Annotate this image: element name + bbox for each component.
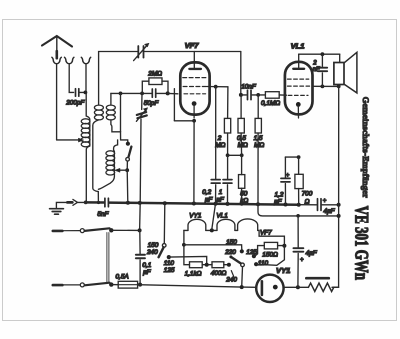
- socket jack 3: [81, 57, 90, 64]
- ground symbol: [50, 209, 64, 215]
- tap arrowhead on antenna coil: [78, 138, 83, 142]
- smoothing column x298: [296, 214, 300, 218]
- resistor 0.5MOhm: [240, 95, 242, 119]
- node: 1.2uF column on bus: [284, 203, 288, 207]
- reaction tap wire: [119, 169, 127, 171]
- svg-text:2: 2: [312, 60, 317, 66]
- wire pivot down to mains: [241, 267, 244, 287]
- selector1 wire from bus: [163, 203, 166, 243]
- capacitor 2nF: [321, 54, 323, 67]
- tube VL1 envelope: [285, 62, 313, 115]
- svg-text:2MΩ: 2MΩ: [147, 71, 162, 78]
- plug connector bar: [67, 201, 72, 204]
- switch S1 contact dot: [126, 142, 130, 146]
- svg-text:VE 301 GWn: VE 301 GWn: [351, 206, 372, 280]
- node: reaction tap: [125, 168, 129, 172]
- selector2 lever: [231, 257, 242, 264]
- VF7 cathode dot: [192, 101, 197, 106]
- capacitor 200pF: [76, 89, 79, 97]
- bus wire to 4uF: [299, 204, 317, 206]
- chassis bus continued (thick): [109, 203, 298, 205]
- wire socket3 down: [85, 65, 87, 93]
- transformer primary winding: [94, 105, 103, 120]
- svg-text:VY1: VY1: [276, 266, 290, 275]
- wire 200pF to node: [80, 91, 86, 93]
- svg-text:5nF: 5nF: [97, 211, 109, 218]
- inductor L1 antenna coil: [81, 119, 90, 147]
- svg-text:MΩ: MΩ: [215, 142, 225, 149]
- node link: [226, 153, 230, 157]
- heater filament VL1: [217, 219, 235, 230]
- node: 0.2uF column on bus: [214, 202, 218, 206]
- wire trimmer down through bus to mains: [140, 119, 141, 230]
- VF7 grid row2 (screen): [183, 86, 207, 88]
- second bus from 1.5M bottom: [258, 204, 339, 216]
- svg-text:VF7: VF7: [185, 41, 200, 50]
- wire socket2 down: [69, 65, 73, 93]
- VF7 grid row1: [183, 77, 207, 79]
- svg-text:VY1: VY1: [189, 213, 202, 220]
- svg-text:150: 150: [226, 239, 237, 246]
- svg-text:0,5A: 0,5A: [116, 274, 129, 281]
- capacitor 0.2uF: [211, 180, 220, 184]
- 150 line: [184, 245, 242, 250]
- tube VF7 envelope: [180, 62, 209, 114]
- svg-text:VL1: VL1: [216, 213, 228, 220]
- wire plug to bus: [78, 201, 86, 203]
- svg-text:0,1MΩ: 0,1MΩ: [261, 100, 280, 107]
- variable capacitor C tuning: [138, 46, 143, 58]
- heater filament VF7: [238, 219, 258, 230]
- rail continued to VF7/right: [145, 51, 241, 53]
- svg-text:10nF: 10nF: [241, 84, 257, 91]
- capacitor 50pF: [152, 89, 155, 97]
- svg-text:MΩ: MΩ: [238, 142, 248, 149]
- resistor 2MOhm grid leak: [149, 78, 162, 85]
- node under VF7: [192, 119, 196, 123]
- VL1 grid row2 (screen): [288, 85, 310, 87]
- mains plug pin upper: [53, 230, 63, 233]
- VY1 cathode bar: [261, 281, 264, 295]
- resistor 0.1MOhm: [258, 94, 265, 96]
- mains switch upper circle: [80, 229, 84, 233]
- svg-text:µF: µF: [216, 197, 225, 204]
- top anode rail: [99, 52, 138, 105]
- svg-text:+: +: [286, 173, 290, 179]
- wire staircase to switch contact: [121, 140, 128, 142]
- node: socket3 / coil top: [84, 91, 88, 95]
- node: trimmer/mains line on bus: [138, 201, 142, 205]
- svg-text:110: 110: [258, 260, 269, 267]
- contact dot 125: [252, 254, 256, 258]
- node: 50k column on bus: [240, 202, 243, 205]
- switch S1 lever: [128, 147, 131, 158]
- svg-text:1,2: 1,2: [275, 191, 284, 198]
- loudspeaker: [334, 63, 344, 85]
- wire secondary bottom jog: [111, 120, 121, 132]
- VL1 cathode dot: [296, 102, 301, 107]
- chassis bus (thick): [86, 201, 104, 204]
- inductor reaction coil: [106, 151, 115, 175]
- wire antenna coil bottom to bus: [86, 146, 90, 202]
- svg-text:240: 240: [225, 277, 237, 284]
- node: 1.5M column on bus: [256, 202, 260, 206]
- svg-text:1: 1: [219, 189, 223, 196]
- svg-text:Gemeinschafts-Empfänger: Gemeinschafts-Empfänger: [361, 97, 371, 198]
- wire 150R left to 125 dot: [254, 246, 264, 257]
- svg-text:+: +: [300, 257, 304, 263]
- VF7 anode stub: [193, 52, 195, 68]
- VL1 anode bar: [293, 68, 304, 70]
- wire 150R bypass to 110 dot: [257, 246, 284, 266]
- choke core bar: [306, 277, 329, 280]
- capacitor 4uF (smoothing, right): [318, 199, 322, 211]
- node: 700R column on bus: [297, 203, 301, 207]
- resistor 50kOhm: [239, 175, 245, 189]
- wire 2M column from screen corner: [227, 87, 229, 119]
- node: coil bottom on bus: [84, 201, 88, 205]
- switch mechanical link: [106, 233, 108, 283]
- capacitor 1.2uF electrolytic: [281, 178, 290, 182]
- capacitor 0.1uF mains: [139, 230, 141, 253]
- svg-text:µF: µF: [143, 269, 152, 276]
- right rail down: [333, 86, 339, 287]
- wire screen out right: [207, 86, 228, 88]
- field coil / choke: [298, 286, 309, 288]
- resistor 1.1kOhm: [190, 262, 203, 268]
- wire primary bottom down: [93, 120, 99, 202]
- svg-text:VL1: VL1: [291, 42, 305, 51]
- heater chain left: [184, 229, 188, 231]
- resistor 400 Ohm: [212, 262, 224, 268]
- svg-text:nF: nF: [313, 67, 320, 73]
- selector2 pivot circle: [241, 263, 245, 267]
- fuse 0.5A: [118, 281, 137, 288]
- svg-text:2: 2: [217, 135, 222, 142]
- socket jack 2: [65, 57, 74, 64]
- svg-text:240: 240: [146, 249, 158, 256]
- wire reaction coil bottom: [98, 175, 114, 190]
- resistor 700 Ohm: [298, 157, 300, 174]
- VL1 grid row3: [288, 94, 308, 96]
- svg-text:µF: µF: [205, 197, 214, 204]
- switch S1 pivot circle: [126, 158, 130, 162]
- node: 1uF column on bus: [226, 202, 230, 206]
- reaction tap arrowhead: [115, 168, 120, 172]
- svg-text:125: 125: [164, 267, 175, 274]
- VL1 grid row1: [288, 78, 309, 80]
- node: regen switch line on bus: [126, 201, 130, 205]
- resistor 150 Ohm: [264, 242, 277, 249]
- svg-text:200pF: 200pF: [65, 100, 85, 107]
- trimmer arrow: [136, 110, 145, 121]
- wire tap node down to bus: [126, 170, 129, 202]
- node: coil return on bus: [97, 201, 100, 204]
- wire grid into VF7: [168, 92, 178, 94]
- capacitor 5nF: [105, 198, 109, 207]
- wire VF7 cathode to bus: [193, 121, 195, 204]
- heater filament VY1: [188, 219, 206, 230]
- node: selector1 line on bus: [163, 201, 167, 205]
- svg-text:Ω: Ω: [305, 198, 310, 205]
- svg-text:µF: µF: [274, 199, 283, 206]
- VF7 anode bar: [189, 68, 201, 70]
- svg-text:50pF: 50pF: [144, 100, 160, 107]
- wire W1 node down to trimmer: [141, 93, 143, 109]
- selector1 lever: [159, 247, 164, 257]
- capacitor 1uF: [223, 180, 232, 184]
- wire screen node down / 0.2uF column: [215, 87, 217, 179]
- ground terminal wire: [56, 202, 67, 208]
- mains switch lower lever: [85, 283, 110, 286]
- svg-text:400Ω: 400Ω: [211, 270, 227, 277]
- svg-text:220: 220: [224, 249, 236, 256]
- tube VY1 rectifier: [256, 275, 283, 302]
- VY1 output wire: [284, 286, 298, 288]
- svg-text:4µF: 4µF: [306, 250, 318, 257]
- wire pivot down to tap node: [126, 161, 128, 170]
- svg-text:150Ω: 150Ω: [262, 252, 278, 259]
- resistor 1.5MOhm: [257, 95, 259, 119]
- svg-text:110: 110: [164, 260, 175, 267]
- rail corner down to 10nF node: [240, 52, 242, 95]
- mains switch lower circle: [80, 283, 84, 287]
- swing tick: [231, 271, 233, 277]
- selector1 pivot circle: [162, 244, 166, 248]
- plug connector chevron: [73, 199, 78, 205]
- wire reaction coil top jog: [114, 140, 118, 151]
- capacitor 4uF electrolytic lower: [293, 248, 303, 252]
- VL1 anode stub: [298, 54, 300, 67]
- svg-text:0,2: 0,2: [202, 189, 211, 196]
- wire 2M right leg: [162, 81, 168, 92]
- wire secondary top to grid wire: [110, 93, 112, 105]
- mains switch upper lever: [85, 228, 110, 231]
- antenna plug pin: [55, 51, 58, 58]
- mains switch upper contact: [109, 228, 113, 232]
- grid circuit wire W1: [111, 92, 151, 94]
- VF7 grid row3: [184, 93, 206, 95]
- wire node down to antenna coil: [86, 92, 90, 119]
- wire socket1 down: [56, 65, 58, 140]
- mains wire to VY1: [138, 285, 257, 288]
- svg-text:4µF: 4µF: [323, 208, 335, 215]
- heater chain step right: [258, 230, 285, 245]
- node: right rail on bus: [337, 203, 341, 207]
- heater left drop: [184, 230, 190, 264]
- trimmer capacitor plates: [137, 112, 147, 118]
- VL1 top wire: [299, 53, 340, 55]
- VY1 anode dot: [273, 285, 278, 290]
- wire W1 node down: [120, 93, 122, 139]
- node on W1: [119, 92, 123, 96]
- wire 2M left leg: [142, 81, 149, 92]
- heater to bus link: [212, 204, 216, 229]
- VL1 screen wire right: [313, 85, 340, 87]
- wire contact to resistor row: [169, 256, 207, 264]
- cathode RC bracket: [285, 156, 298, 158]
- contact dot 110: [254, 262, 258, 266]
- wire 150R right: [278, 245, 285, 247]
- svg-text:1,1kΩ: 1,1kΩ: [185, 270, 202, 277]
- svg-text:+: +: [323, 198, 327, 204]
- mains plug pin lower: [53, 284, 63, 287]
- wire 4uF to right rail: [322, 204, 339, 206]
- tuning cap arrow: [134, 46, 147, 61]
- contact dot 220: [240, 249, 244, 253]
- wire to antenna coil tap: [57, 139, 80, 141]
- svg-text:MΩ: MΩ: [254, 142, 264, 149]
- selector1 contact dot: [167, 255, 171, 259]
- svg-text:700: 700: [302, 191, 313, 198]
- transformer secondary winding: [106, 105, 115, 120]
- mains switch lower contact: [109, 282, 113, 286]
- antenna: [42, 36, 72, 51]
- resistor 2MOhm (anode load): [224, 118, 230, 133]
- socket jack 1: [52, 57, 61, 64]
- wire cathode branch vertical: [173, 89, 175, 121]
- node: VF7 cathode on bus: [192, 202, 196, 206]
